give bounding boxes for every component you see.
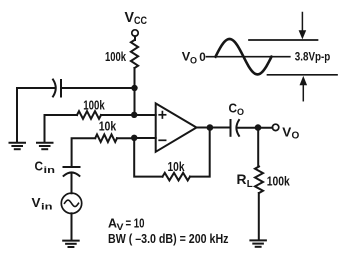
svg-text:O: O [237, 107, 244, 118]
capacitor bypass (curved+flat plates) [53, 80, 61, 97]
svg-text:R: R [237, 171, 247, 187]
value label 100k (RL) [267, 174, 291, 189]
svg-text:BW ( –3.0 dB) = 200 kHz: BW ( –3.0 dB) = 200 kHz [108, 232, 229, 246]
value label 100k (bias resistor) [83, 98, 105, 113]
ground (left, bypass cap) [10, 143, 26, 149]
svg-text:O: O [190, 56, 197, 67]
net label VCC [125, 9, 148, 27]
wire feedback down from - junction [134, 138, 162, 176]
waveform sine trace [216, 39, 272, 74]
svg-text:V: V [32, 195, 41, 210]
wire R bottom to node A [134, 68, 136, 88]
output terminal VO [272, 124, 278, 130]
resistor 100k (bias to + input) [77, 111, 101, 119]
capacitor Cin plates [64, 167, 80, 176]
wire op-amp output [197, 127, 231, 129]
wire RL tap down to RL [257, 128, 259, 167]
node junction dot (RL tap) [255, 124, 262, 131]
resistor RL 100k [255, 167, 263, 194]
wire node A to bypass cap right plate [62, 87, 135, 89]
wire VCC terminal to R top [134, 36, 136, 40]
dimension arrow (down, to top line) [299, 13, 307, 40]
wire bypass cap to left corner [17, 88, 54, 142]
value label 10k (input resistor) [99, 119, 117, 134]
wire RL to ground [258, 193, 260, 240]
resistor 100k (VCC to node A) [131, 40, 138, 68]
resistor 10k (input) [95, 134, 117, 142]
annotation 3.8Vp-p [295, 49, 331, 63]
waveform peak reference line (top) [249, 39, 318, 41]
node junction dot (- input) [131, 135, 137, 141]
svg-text:100k: 100k [83, 98, 105, 113]
svg-text:V: V [282, 125, 291, 140]
ref label Vin [32, 195, 53, 213]
capacitor CO plates [231, 120, 240, 136]
resistor 10k (feedback) [163, 173, 191, 181]
node junction dot (+ input) [131, 112, 137, 118]
wire Cin top to 10k input resistor [72, 138, 96, 167]
wire Cin to Vin source [71, 173, 73, 193]
VCC terminal [132, 30, 138, 36]
source Vin (sine generator) [61, 193, 81, 213]
wire + input junction to op-amp [134, 114, 156, 116]
waveform zero axis line left [207, 56, 290, 58]
value label CO [229, 101, 245, 119]
value label 100k (VCC resistor) [105, 49, 127, 64]
dimension arrow (up, to bottom line) [300, 76, 308, 101]
value label 10k (feedback resistor) [168, 159, 186, 174]
waveform: net label VO 0 [182, 50, 206, 67]
ref label RL [237, 171, 253, 190]
op-amp U1 [156, 103, 197, 151]
wire 10k to inverting junction [117, 137, 134, 139]
svg-text:L: L [247, 179, 253, 190]
svg-text:10k: 10k [99, 119, 117, 134]
wire CO to output terminal [237, 127, 273, 129]
svg-text:= 10: = 10 [126, 217, 145, 231]
ground (RL) [250, 240, 266, 246]
svg-text:100k: 100k [267, 174, 291, 189]
wire Vin to ground [71, 213, 73, 240]
wire bias resistor to + input junction [101, 114, 134, 116]
svg-text:0: 0 [199, 50, 206, 64]
svg-text:in: in [41, 202, 53, 213]
svg-text:3.8Vp-p: 3.8Vp-p [295, 49, 331, 63]
waveform trough reference line (bottom) [268, 74, 338, 76]
output node junction dot [207, 124, 214, 131]
annotation AV = 10 [108, 216, 145, 234]
svg-text:CC: CC [134, 15, 147, 27]
wire - input junction to op-amp [134, 137, 156, 139]
svg-text:10k: 10k [168, 159, 186, 174]
ground (Vin) [63, 241, 78, 247]
svg-text:C: C [35, 159, 44, 174]
net label VO (output) [282, 125, 299, 142]
svg-text:V: V [125, 9, 135, 26]
wire feedback resistor up to output node [190, 128, 210, 177]
value label Cin [35, 159, 56, 177]
svg-text:100k: 100k [105, 49, 127, 64]
wire node A down to noninverting junction [134, 88, 136, 115]
svg-text:O: O [292, 130, 300, 141]
annotation BW (-3.0 dB) = 200 kHz [108, 232, 229, 246]
ground (bias resistor return) [37, 143, 53, 149]
wire ground stem to bias resistor [45, 115, 78, 142]
node A junction dot [131, 85, 137, 91]
svg-text:in: in [44, 165, 56, 176]
